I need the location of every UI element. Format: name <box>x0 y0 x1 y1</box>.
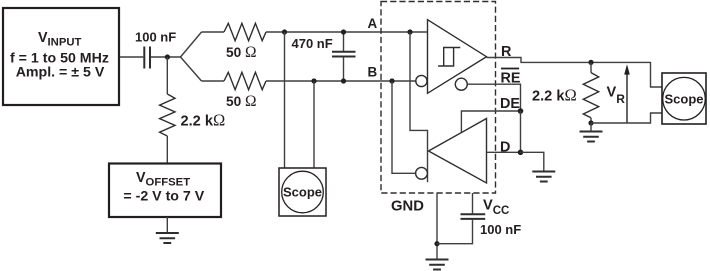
resistor R2 50 ohm <box>224 72 266 89</box>
wire R2 to receiver input B <box>266 80 416 82</box>
svg-text:B: B <box>368 64 378 79</box>
node input junction <box>165 54 170 59</box>
wire node A down to scope <box>284 32 286 168</box>
node DE junction <box>518 108 524 114</box>
node C2 bottom junction <box>341 78 346 83</box>
driver inverting output bubble <box>416 167 428 179</box>
svg-text:GND: GND <box>391 199 424 215</box>
svg-text:2.2 kΩ: 2.2 kΩ <box>181 110 226 129</box>
wire to R1 <box>202 31 225 33</box>
node C2 top junction <box>341 29 346 34</box>
hysteresis symbol <box>438 48 460 67</box>
wire fork to line B <box>181 57 202 81</box>
receiver enable bubble RE <box>455 78 467 90</box>
svg-text:= -2 V to 7 V: = -2 V to 7 V <box>123 189 204 205</box>
wire D pin <box>487 151 521 153</box>
wire B to driver inverting output <box>392 81 416 173</box>
wire DE to D node <box>520 111 522 152</box>
capacitor C3 100 nF <box>461 214 486 219</box>
wire R node to R4 <box>590 62 592 72</box>
wire C3 to GND node <box>437 219 473 244</box>
wire DE to driver enable <box>461 111 520 132</box>
node B inside junction <box>389 78 394 83</box>
svg-text:100 nF: 100 nF <box>480 222 521 237</box>
node R top junction <box>588 60 593 65</box>
node B junction at scope tap <box>311 78 316 83</box>
node A inside junction <box>407 29 412 34</box>
transceiver U1 dashed boundary <box>381 2 496 194</box>
svg-text:Scope: Scope <box>283 185 322 200</box>
svg-text:470 nF: 470 nF <box>292 36 333 51</box>
wire D node to ground <box>521 152 544 171</box>
wire to R2 <box>202 80 225 82</box>
wire R output <box>487 58 663 88</box>
resistor R4 2.2 kohm <box>583 73 598 118</box>
svg-text:R: R <box>501 44 512 60</box>
resistor R1 50 ohm <box>224 23 266 40</box>
svg-text:100 nF: 100 nF <box>135 30 176 45</box>
node GND junction <box>434 241 439 246</box>
ground at D <box>532 172 555 182</box>
wire node B down to scope <box>313 81 315 168</box>
wire VOFFSET to ground <box>166 217 168 233</box>
wire RE to DE node <box>467 84 520 111</box>
svg-text:50 Ω: 50 Ω <box>226 93 257 110</box>
capacitor C1 <box>144 47 150 69</box>
label pin RE with overline <box>501 69 521 87</box>
driver U1B triangle <box>429 119 487 184</box>
svg-text:Scope: Scope <box>664 91 703 106</box>
receiver inverting input bubble <box>416 75 427 86</box>
svg-text:RE: RE <box>501 70 521 86</box>
oscilloscope probe box scope2 <box>662 73 706 124</box>
wire VCC pin to C3 <box>472 193 474 213</box>
voltage source VOFFSET <box>109 164 221 218</box>
svg-text:D: D <box>500 140 510 156</box>
wire R1 to receiver input A <box>266 31 428 33</box>
capacitor C2 470 nF <box>332 32 356 81</box>
wire R4 bottom to ground <box>590 123 592 132</box>
wire fork to line A <box>181 32 202 57</box>
receiver U1A triangle <box>428 20 487 94</box>
node R4 bottom junction <box>588 120 593 125</box>
wire input node to R3 <box>166 57 168 94</box>
svg-text:A: A <box>368 16 378 31</box>
oscilloscope probe box scope1 <box>279 168 326 216</box>
svg-text:Ampl. = ± 5 V: Ampl. = ± 5 V <box>16 64 105 80</box>
wire VINPUT to C1 <box>120 56 143 58</box>
svg-text:2.2 kΩ: 2.2 kΩ <box>532 86 577 105</box>
wire R4 to bottom node <box>590 118 592 123</box>
ground below VOFFSET <box>156 233 179 243</box>
wire R4 bottom to scope2 <box>591 113 662 123</box>
node A junction at scope tap <box>282 29 287 34</box>
wire R3 to VOFFSET <box>166 136 168 164</box>
VR measurement arrow <box>624 64 630 122</box>
ground at GND pin <box>426 260 449 270</box>
voltage source VINPUT <box>3 8 119 105</box>
wire GND pin down <box>436 193 438 260</box>
svg-text:50 Ω: 50 Ω <box>226 44 257 61</box>
resistor R3 2.2 kohm <box>160 94 175 136</box>
ground at R4 <box>580 132 603 142</box>
node D junction <box>518 150 524 156</box>
wire C1 to input node <box>151 56 181 58</box>
wire A to driver output <box>410 32 428 182</box>
svg-text:DE: DE <box>500 96 520 112</box>
